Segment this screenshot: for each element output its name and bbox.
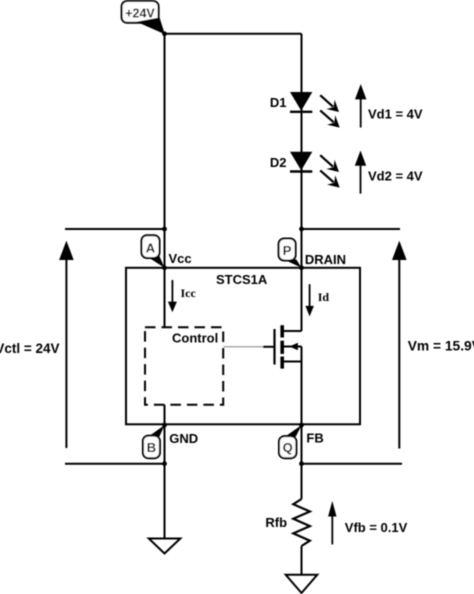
node dot bottom-left junction xyxy=(162,461,167,466)
node dot left rail junction xyxy=(162,227,167,232)
measurement arrow Vfb xyxy=(328,501,336,545)
svg-text:Vfb = 0.1V: Vfb = 0.1V xyxy=(345,520,408,535)
wire gate stub xyxy=(263,346,275,348)
svg-text:STCS1A: STCS1A xyxy=(216,272,268,287)
wire left vertical from +24V node to Vcc pin xyxy=(164,34,166,268)
node dot Vcc pin xyxy=(162,265,167,270)
wire right measurement stub rail xyxy=(302,228,401,230)
svg-text:+24V: +24V xyxy=(125,6,155,20)
wire bottom-right rail xyxy=(302,463,403,465)
ground symbol left xyxy=(149,539,181,554)
measurement arrow Vm xyxy=(392,241,407,449)
ground symbol right xyxy=(286,575,318,593)
measurement arrow Vd1 xyxy=(355,84,366,128)
svg-text:Control: Control xyxy=(172,330,218,345)
wire resistor to ground xyxy=(301,546,303,575)
svg-text:Vm = 15.9V: Vm = 15.9V xyxy=(408,338,474,353)
node B flag xyxy=(143,425,165,458)
node dot DRAIN pin xyxy=(299,265,304,270)
node P flag xyxy=(279,239,302,268)
svg-text:Id: Id xyxy=(318,290,330,304)
wire left measurement stub rail xyxy=(65,228,165,230)
node dot GND pin xyxy=(162,423,167,428)
node dot right rail junction xyxy=(299,227,304,232)
current arrow Id xyxy=(305,284,314,316)
node dot bottom-right junction xyxy=(299,461,304,466)
svg-text:D1: D1 xyxy=(270,95,287,110)
wire Vcc internal to Control block xyxy=(164,268,166,327)
svg-text:A: A xyxy=(146,241,156,256)
svg-text:FB: FB xyxy=(306,431,323,446)
svg-text:P: P xyxy=(283,243,292,258)
LED D2 xyxy=(290,152,312,172)
wire GND internal from control block to GND pin xyxy=(164,405,166,425)
svg-text:B: B xyxy=(147,440,156,455)
IC U1 STCS1A body xyxy=(126,268,360,425)
svg-text:Vcc: Vcc xyxy=(169,251,192,266)
LED D2 light ray arrows xyxy=(320,155,340,187)
svg-text:GND: GND xyxy=(169,431,198,446)
node dot FB pin xyxy=(299,423,304,428)
LED D1 xyxy=(290,92,312,112)
node dot at +24V junction xyxy=(162,31,167,36)
svg-text:Rfb: Rfb xyxy=(265,515,287,530)
svg-text:Vd1 = 4V: Vd1 = 4V xyxy=(368,107,423,122)
wire FB pin down to resistor xyxy=(301,425,303,499)
current arrow Icc xyxy=(168,280,177,312)
wire GND pin down to ground xyxy=(164,425,166,539)
svg-text:Vctl = 24V: Vctl = 24V xyxy=(0,341,60,356)
control block (dashed) xyxy=(145,327,223,405)
wire top rail from +24V node to LED branch xyxy=(165,33,302,35)
svg-text:Vd2 = 4V: Vd2 = 4V xyxy=(368,168,423,183)
wire DRAIN internal to MOSFET drain xyxy=(301,268,303,331)
wire bottom-left rail xyxy=(65,463,165,465)
LED D1 light ray arrows xyxy=(320,95,340,127)
svg-text:Icc: Icc xyxy=(181,286,197,300)
measurement arrow Vctl xyxy=(59,241,74,448)
node Q flag xyxy=(279,425,302,458)
node A flag xyxy=(142,235,165,268)
resistor Rfb xyxy=(293,499,310,546)
svg-text:DRAIN: DRAIN xyxy=(305,252,346,267)
wire gate drive (gray) from control block to MOSFET gate xyxy=(224,346,265,348)
power flag +24V xyxy=(122,1,165,34)
wire right vertical from top rail through LEDs to DRAIN pin xyxy=(301,34,303,268)
svg-text:Q: Q xyxy=(283,440,293,455)
transistor Q1 MOSFET xyxy=(275,325,302,425)
measurement arrow Vd2 xyxy=(355,151,366,194)
svg-text:D2: D2 xyxy=(270,155,287,170)
